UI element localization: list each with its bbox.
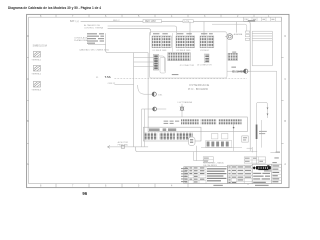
wire feed to terminal ladder bbox=[212, 24, 247, 31]
svg-text:C: C bbox=[27, 78, 29, 81]
horn H1 bbox=[225, 33, 243, 39]
zone tick marks right edge bbox=[281, 58, 283, 144]
wire branch y28.7 bbox=[108, 29, 151, 36]
title block text rows bbox=[253, 165, 279, 183]
connector module J1 bbox=[153, 55, 158, 71]
lamp DS2 bbox=[142, 107, 167, 111]
wire drop to relay group K3 bbox=[203, 22, 205, 36]
wire panel to cluster bbox=[233, 123, 235, 151]
connector strip J4 bbox=[228, 52, 238, 68]
svg-text:CABLEADO DEL CHASIS 30/50: CABLEADO DEL CHASIS 30/50 bbox=[79, 49, 110, 52]
small table upper notes bbox=[203, 157, 213, 163]
arrowhead jumper 1 bbox=[267, 108, 269, 110]
terminal box beside module bbox=[160, 57, 166, 73]
wire harness lower left bbox=[107, 141, 148, 148]
instrument panel box upper bbox=[148, 117, 247, 132]
svg-text:ALARMA: ALARMA bbox=[234, 33, 243, 36]
svg-text:RED 2: RED 2 bbox=[113, 20, 120, 22]
sheet inner border bbox=[29, 17, 282, 183]
logo subtext bbox=[264, 170, 271, 173]
panel connector pin row upper bbox=[181, 119, 242, 125]
indicator lamp DS4 bbox=[244, 69, 248, 73]
tick labels right junction bbox=[272, 152, 280, 164]
relay group K2 bbox=[176, 36, 195, 52]
svg-text:K3 RELÉ: K3 RELÉ bbox=[200, 49, 209, 52]
group divider wire bbox=[172, 33, 174, 52]
small table wire codes bbox=[244, 157, 265, 163]
svg-text:BAT. (+): BAT. (+) bbox=[70, 20, 79, 23]
wire lower run B bbox=[136, 147, 251, 152]
svg-text:PLATAFORMA: PLATAFORMA bbox=[74, 39, 88, 42]
svg-text:TIERRA 2: TIERRA 2 bbox=[31, 72, 42, 75]
zone numbers top bbox=[40, 15, 270, 18]
terminal box note bbox=[172, 74, 179, 75]
lamp DS3 bbox=[178, 101, 193, 117]
svg-text:Diagrama de Cableado de los Mo: Diagrama de Cableado de los Modelos 30 y… bbox=[8, 6, 101, 10]
svg-text:96: 96 bbox=[82, 191, 87, 196]
svg-text:SIMBOLOGIA: SIMBOLOGIA bbox=[33, 44, 48, 47]
wires module J1 to harness bbox=[134, 58, 154, 67]
svg-text:D: D bbox=[284, 35, 286, 38]
wire horizontal mid right bbox=[227, 70, 277, 72]
wire bus corner down at right bbox=[248, 22, 250, 72]
panel connector pin row lower bbox=[145, 133, 193, 140]
wire label right drop bbox=[259, 131, 267, 134]
resistor R1 vertical element bbox=[256, 125, 258, 140]
margin drawing number bbox=[213, 185, 268, 186]
notes table bbox=[184, 167, 228, 184]
wire vertical right second bbox=[255, 107, 257, 164]
zone letters right bbox=[284, 35, 286, 166]
title block bbox=[252, 164, 281, 183]
terminal strip ladder TB1 bbox=[252, 31, 272, 66]
side label column bbox=[181, 168, 188, 182]
relay group K1 bbox=[152, 36, 171, 52]
wire name list bbox=[87, 33, 104, 44]
wire riser to lower run bbox=[106, 45, 148, 53]
wire heavy splice mark bbox=[248, 20, 255, 21]
gauge box G1 bbox=[212, 134, 218, 139]
gauge box G2 bbox=[222, 134, 228, 139]
lamp DS1 bbox=[138, 85, 163, 96]
svg-text:C: C bbox=[284, 78, 286, 81]
zone letters left bbox=[27, 35, 29, 166]
sheet outer border bbox=[27, 14, 289, 187]
svg-text:RED 1468: RED 1468 bbox=[145, 21, 156, 23]
junction dot bbox=[233, 127, 235, 129]
manufacturer logo bbox=[253, 165, 271, 170]
wire vertical x261 bbox=[260, 120, 262, 148]
wire label plate 1470 bbox=[183, 20, 193, 24]
wire orn branch bbox=[114, 83, 133, 85]
zone tick marks bottom edge bbox=[56, 184, 248, 188]
ground symbol GND1 bbox=[31, 51, 42, 61]
svg-text:P.C. BOARD: P.C. BOARD bbox=[188, 87, 208, 91]
wire vertical lamp feeds bbox=[141, 109, 143, 147]
relay group K3 bbox=[200, 36, 214, 52]
wire module J1 output bbox=[159, 56, 165, 71]
svg-text:PRINCIPAL: PRINCIPAL bbox=[118, 143, 129, 146]
revision table bbox=[244, 17, 282, 21]
svg-text:1470: 1470 bbox=[184, 21, 190, 23]
connector plug P2 bbox=[188, 137, 195, 146]
wire branch y26 bbox=[108, 26, 177, 35]
svg-text:K2 RELÉ 1469: K2 RELÉ 1469 bbox=[177, 49, 192, 52]
wire main power bus bbox=[81, 21, 251, 23]
relay box K4 bbox=[242, 136, 248, 142]
svg-text:TIERRA 3: TIERRA 3 bbox=[31, 88, 42, 91]
wire long vertical A bbox=[133, 53, 135, 147]
group top pin marks bbox=[153, 33, 213, 34]
fuse block cluster bbox=[206, 141, 232, 148]
svg-text:J2 CONECTOR: J2 CONECTOR bbox=[180, 65, 195, 67]
wire list bracket bbox=[88, 33, 106, 45]
wire long vertical B bbox=[147, 53, 149, 117]
arrowhead jumper 2 bbox=[267, 114, 269, 116]
dashed boundary interface board bbox=[114, 78, 247, 80]
wire drop to notes area bbox=[194, 146, 209, 161]
wire vertical main right bbox=[249, 71, 251, 151]
zone tick marks left edge bbox=[27, 58, 29, 144]
wire vertical far right bbox=[276, 71, 278, 152]
instrument panel box lower bbox=[144, 127, 202, 141]
svg-text:CONTROL TIERRA: CONTROL TIERRA bbox=[84, 27, 104, 30]
zone numbers bottom bbox=[40, 184, 173, 187]
connector strip J3 bbox=[204, 54, 209, 62]
panel interior labels left bbox=[164, 121, 180, 124]
connector grid J2 bbox=[168, 53, 191, 61]
wire rounded jumper bbox=[256, 102, 267, 118]
parts table bbox=[228, 165, 253, 183]
ground symbol GND3 bbox=[31, 81, 42, 91]
svg-text:TIERRA 1: TIERRA 1 bbox=[31, 58, 42, 61]
zone tick marks top edge bbox=[56, 14, 254, 17]
wire under cluster bbox=[201, 147, 242, 149]
wire drop to horn bbox=[236, 22, 238, 33]
wire drop to relay group K2 bbox=[189, 22, 191, 36]
wire label plate 1468 bbox=[143, 19, 161, 23]
svg-text:LUZ TRASERA: LUZ TRASERA bbox=[178, 101, 193, 104]
svg-text:7.5A: 7.5A bbox=[105, 75, 112, 79]
svg-text:K1 RELÉ 1468: K1 RELÉ 1468 bbox=[153, 49, 168, 52]
svg-text:J3 CONECTOR: J3 CONECTOR bbox=[197, 65, 212, 67]
terminal lugs TB1 bbox=[245, 31, 249, 40]
wire stubs bottom right junction bbox=[247, 147, 277, 152]
svg-text:D: D bbox=[27, 35, 29, 38]
circuit board outline bbox=[149, 32, 227, 78]
svg-text:REV: REV bbox=[244, 19, 249, 21]
panel pin band middle bbox=[149, 128, 176, 131]
ground symbol GND2 bbox=[31, 65, 42, 75]
